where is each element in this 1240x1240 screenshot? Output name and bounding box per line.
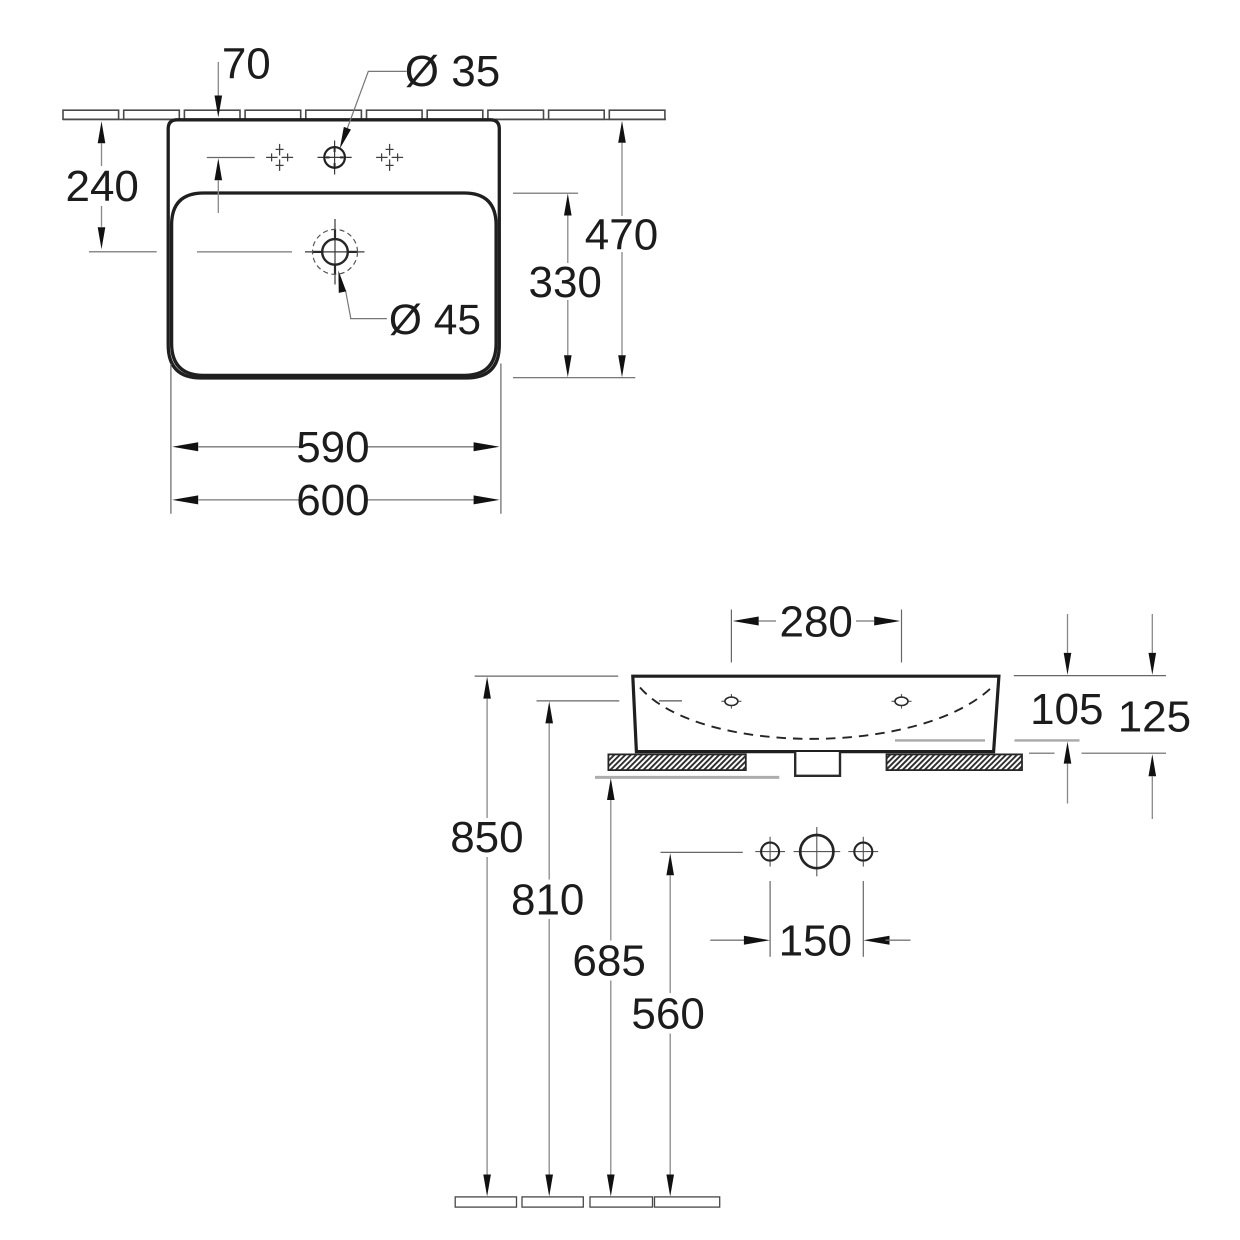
dim 280 bbox=[731, 610, 901, 663]
wall line bbox=[63, 118, 666, 120]
svg-text:70: 70 bbox=[222, 39, 271, 88]
tap hole axis extension line bbox=[207, 157, 255, 159]
drain centerline bbox=[197, 251, 292, 253]
tap hole circle D35 bbox=[318, 141, 352, 175]
ext line 150 left bbox=[769, 881, 771, 957]
dim 125 arrows bbox=[1149, 614, 1157, 819]
ext line 850 top bbox=[475, 675, 619, 677]
svg-text:125: 125 bbox=[1118, 692, 1191, 741]
tap hole cross left bbox=[266, 144, 293, 171]
ext line 810 top bbox=[537, 700, 620, 702]
dim 70 lower arrow (up) bbox=[215, 158, 223, 213]
ref line 105 bottom outside (grey) bbox=[1015, 739, 1080, 741]
dim 590 bbox=[172, 442, 499, 451]
ext line bowl top right bbox=[513, 192, 578, 194]
svg-text:590: 590 bbox=[296, 423, 369, 472]
dim 470 bbox=[618, 121, 626, 378]
supply hole right bbox=[848, 837, 878, 867]
tap hole cross right bbox=[376, 144, 403, 171]
dim 240 bbox=[89, 121, 157, 252]
drain trap stub bbox=[795, 752, 840, 776]
bowl profile dashed bbox=[640, 688, 992, 739]
svg-text:Ø 45: Ø 45 bbox=[389, 297, 481, 344]
basin bowl (plan) bbox=[172, 193, 497, 375]
dim 105 arrows bbox=[1064, 614, 1072, 804]
basin body outline bbox=[633, 676, 999, 751]
overflow hole left bbox=[721, 694, 741, 709]
mounting strip left (hatched) bbox=[608, 754, 745, 770]
svg-text:330: 330 bbox=[528, 258, 601, 307]
svg-text:600: 600 bbox=[296, 476, 369, 525]
dim 70 upper arrow (down) bbox=[215, 62, 223, 118]
washbasin outer rim (plan) bbox=[168, 120, 499, 378]
dim 685 bbox=[607, 778, 615, 1197]
ext line 150 right bbox=[862, 881, 864, 957]
ext line right (590/600) bbox=[500, 364, 502, 514]
svg-text:Ø 35: Ø 35 bbox=[405, 47, 500, 96]
dim 150 bbox=[710, 936, 910, 945]
leader D35 bbox=[336, 71, 406, 150]
svg-text:470: 470 bbox=[585, 211, 658, 260]
ext line basin bottom right bbox=[513, 377, 635, 379]
ext line 560 top bbox=[661, 851, 743, 853]
svg-text:685: 685 bbox=[572, 937, 645, 986]
floor tiles bbox=[455, 1197, 720, 1207]
mounting strip right (hatched) bbox=[887, 754, 1023, 770]
overflow hole right bbox=[892, 694, 912, 709]
svg-text:150: 150 bbox=[779, 916, 852, 965]
ext line 105/125 top bbox=[1014, 675, 1166, 677]
ref line 105 bottom inside (grey) bbox=[895, 739, 985, 741]
svg-text:280: 280 bbox=[779, 597, 852, 646]
ref line 685 (grey) bbox=[595, 776, 779, 779]
supply hole left bbox=[755, 837, 785, 867]
wall tiles row bbox=[63, 110, 665, 119]
ext line left (590/600) bbox=[170, 364, 172, 514]
leader D45 bbox=[335, 270, 387, 319]
dim 560 bbox=[666, 853, 674, 1196]
svg-text:105: 105 bbox=[1030, 685, 1103, 734]
svg-text:850: 850 bbox=[450, 813, 523, 862]
dash segment under trap bbox=[1029, 752, 1055, 754]
dim 330 bbox=[564, 194, 572, 378]
svg-text:810: 810 bbox=[511, 875, 584, 924]
dim 600 bbox=[172, 495, 499, 504]
ext line 125 bottom bbox=[1082, 752, 1167, 754]
drain hole D45 bbox=[305, 219, 365, 285]
interior ref line left bbox=[659, 700, 682, 702]
dim 850 bbox=[483, 677, 491, 1197]
svg-text:240: 240 bbox=[65, 162, 138, 211]
svg-text:560: 560 bbox=[631, 989, 704, 1038]
supply hole center bbox=[794, 827, 841, 876]
dim 810 bbox=[545, 701, 553, 1196]
